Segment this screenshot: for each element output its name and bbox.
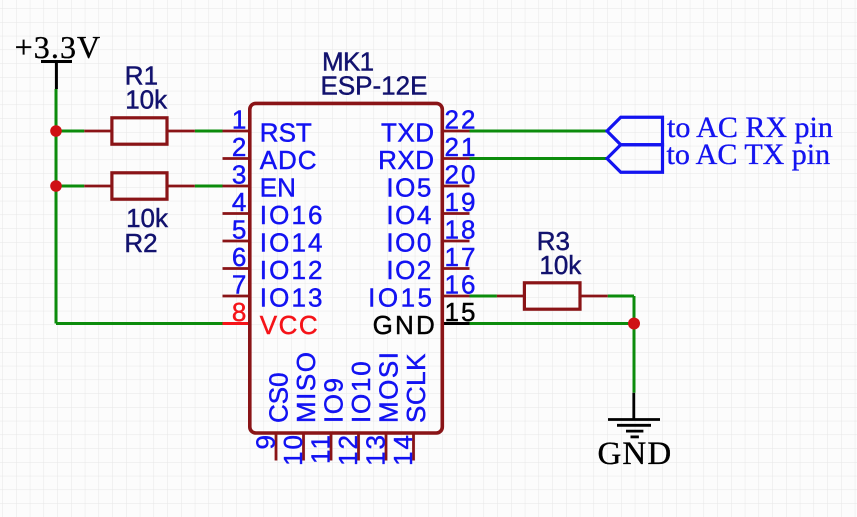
- svg-text:VCC: VCC: [260, 310, 319, 340]
- svg-text:+3.3V: +3.3V: [15, 29, 102, 65]
- svg-text:19: 19: [445, 187, 478, 217]
- svg-text:RXD: RXD: [378, 145, 434, 175]
- svg-text:10k: 10k: [125, 84, 168, 114]
- svg-text:2: 2: [232, 132, 246, 162]
- svg-text:IO0: IO0: [386, 228, 432, 258]
- svg-text:10: 10: [278, 433, 308, 466]
- svg-text:8: 8: [232, 297, 246, 327]
- svg-text:CS0: CS0: [264, 372, 294, 423]
- svg-text:ADC: ADC: [260, 145, 318, 175]
- svg-text:EN: EN: [260, 173, 296, 203]
- svg-text:MOSI: MOSI: [374, 351, 404, 423]
- svg-text:IO14: IO14: [260, 228, 325, 258]
- svg-text:GND: GND: [598, 436, 673, 472]
- svg-text:14: 14: [388, 433, 418, 466]
- svg-text:GND: GND: [373, 310, 437, 340]
- svg-text:IO4: IO4: [386, 200, 432, 230]
- svg-text:ESP-12E: ESP-12E: [321, 70, 428, 100]
- svg-text:to AC TX pin: to AC TX pin: [667, 138, 831, 171]
- svg-text:18: 18: [445, 215, 478, 245]
- svg-text:17: 17: [445, 242, 478, 272]
- svg-text:IO15: IO15: [368, 283, 434, 313]
- svg-text:IO12: IO12: [260, 255, 325, 285]
- svg-text:TXD: TXD: [381, 118, 435, 148]
- svg-text:IO13: IO13: [260, 283, 325, 313]
- svg-text:7: 7: [232, 270, 246, 300]
- svg-text:9: 9: [251, 433, 281, 449]
- svg-text:4: 4: [232, 187, 246, 217]
- svg-text:SCLK: SCLK: [401, 353, 431, 423]
- svg-text:IO2: IO2: [386, 255, 432, 285]
- svg-text:13: 13: [361, 433, 391, 466]
- svg-text:3: 3: [232, 160, 246, 190]
- svg-text:5: 5: [232, 215, 246, 245]
- svg-text:R2: R2: [124, 228, 157, 258]
- svg-text:IO16: IO16: [260, 200, 325, 230]
- svg-text:21: 21: [445, 132, 478, 162]
- svg-text:MISO: MISO: [291, 351, 321, 423]
- svg-text:16: 16: [445, 270, 478, 300]
- svg-text:6: 6: [232, 242, 246, 272]
- svg-text:12: 12: [333, 433, 363, 466]
- svg-text:10k: 10k: [539, 250, 582, 280]
- svg-text:22: 22: [445, 105, 478, 135]
- svg-text:11: 11: [306, 433, 336, 464]
- svg-text:20: 20: [445, 160, 478, 190]
- svg-text:IO5: IO5: [386, 173, 432, 203]
- svg-text:IO9: IO9: [319, 377, 349, 423]
- svg-text:IO10: IO10: [346, 359, 376, 423]
- svg-text:1: 1: [232, 105, 246, 135]
- svg-text:15: 15: [445, 297, 478, 327]
- svg-text:RST: RST: [260, 118, 312, 148]
